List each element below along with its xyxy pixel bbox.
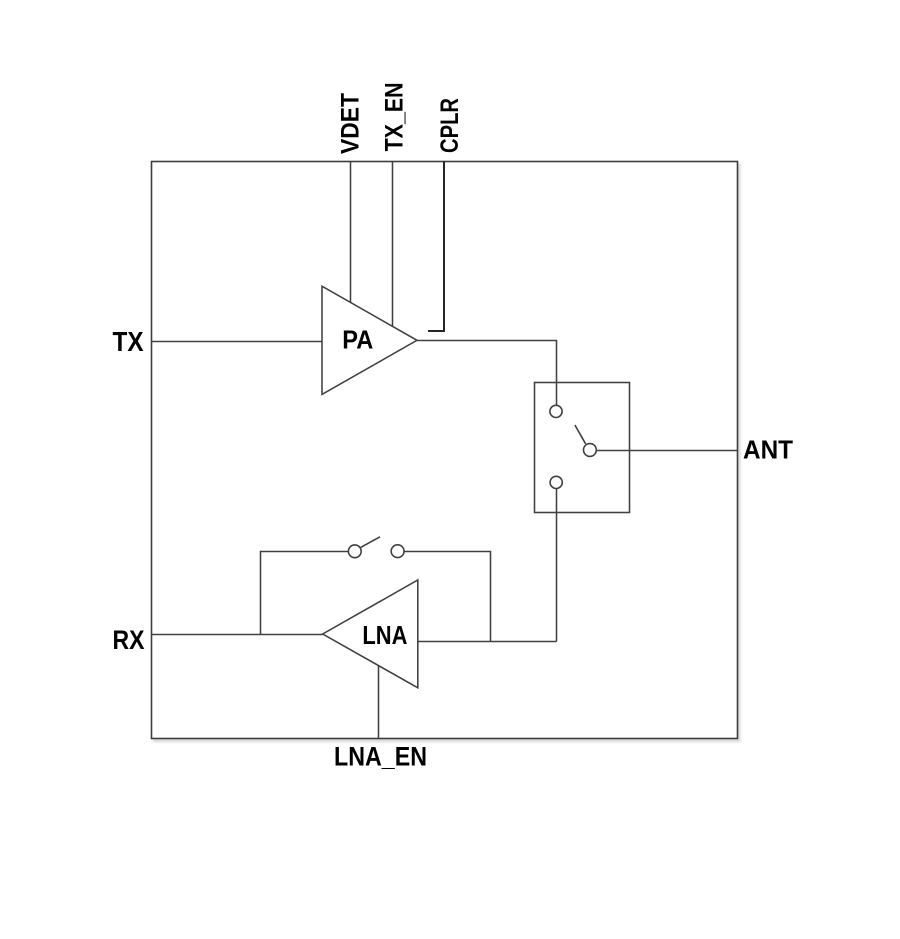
svg-text:ANT: ANT xyxy=(743,437,793,465)
wire switch bottom to LNA output xyxy=(556,488,558,641)
op-amp PA xyxy=(322,286,417,394)
switch arm xyxy=(575,425,586,444)
bypass switch arm xyxy=(360,537,380,548)
node bypass switch left contact xyxy=(348,545,361,558)
wire LNA output xyxy=(418,641,557,643)
svg-text:LNA: LNA xyxy=(362,620,407,650)
svg-text:CPLR: CPLR xyxy=(436,98,464,153)
node switch bottom port xyxy=(550,476,562,488)
svg-text:RX: RX xyxy=(113,625,145,655)
wire TX_EN pin xyxy=(392,162,394,327)
node switch common port xyxy=(584,444,597,457)
switch box SPDT xyxy=(535,383,630,513)
op-amp LNA xyxy=(323,580,418,688)
outer box (module boundary) xyxy=(152,162,738,739)
node bypass switch right contact xyxy=(391,545,404,558)
wire RX input xyxy=(152,634,323,636)
svg-text:LNA_EN: LNA_EN xyxy=(334,742,427,772)
svg-text:TX_EN: TX_EN xyxy=(381,82,409,151)
wire bypass branch left xyxy=(261,552,349,635)
wire TX input xyxy=(152,341,323,343)
wire VDET pin xyxy=(350,162,352,303)
wire bypass branch right xyxy=(404,552,491,642)
wire LNA_EN pin xyxy=(378,666,380,739)
svg-text:TX: TX xyxy=(113,326,145,357)
node switch top port xyxy=(550,405,562,417)
svg-text:VDET: VDET xyxy=(337,93,365,154)
wire ANT xyxy=(596,450,737,452)
wire CPLR pin (elbow) xyxy=(428,162,444,332)
svg-text:PA: PA xyxy=(342,324,373,354)
wire PA output to switch xyxy=(417,341,557,406)
